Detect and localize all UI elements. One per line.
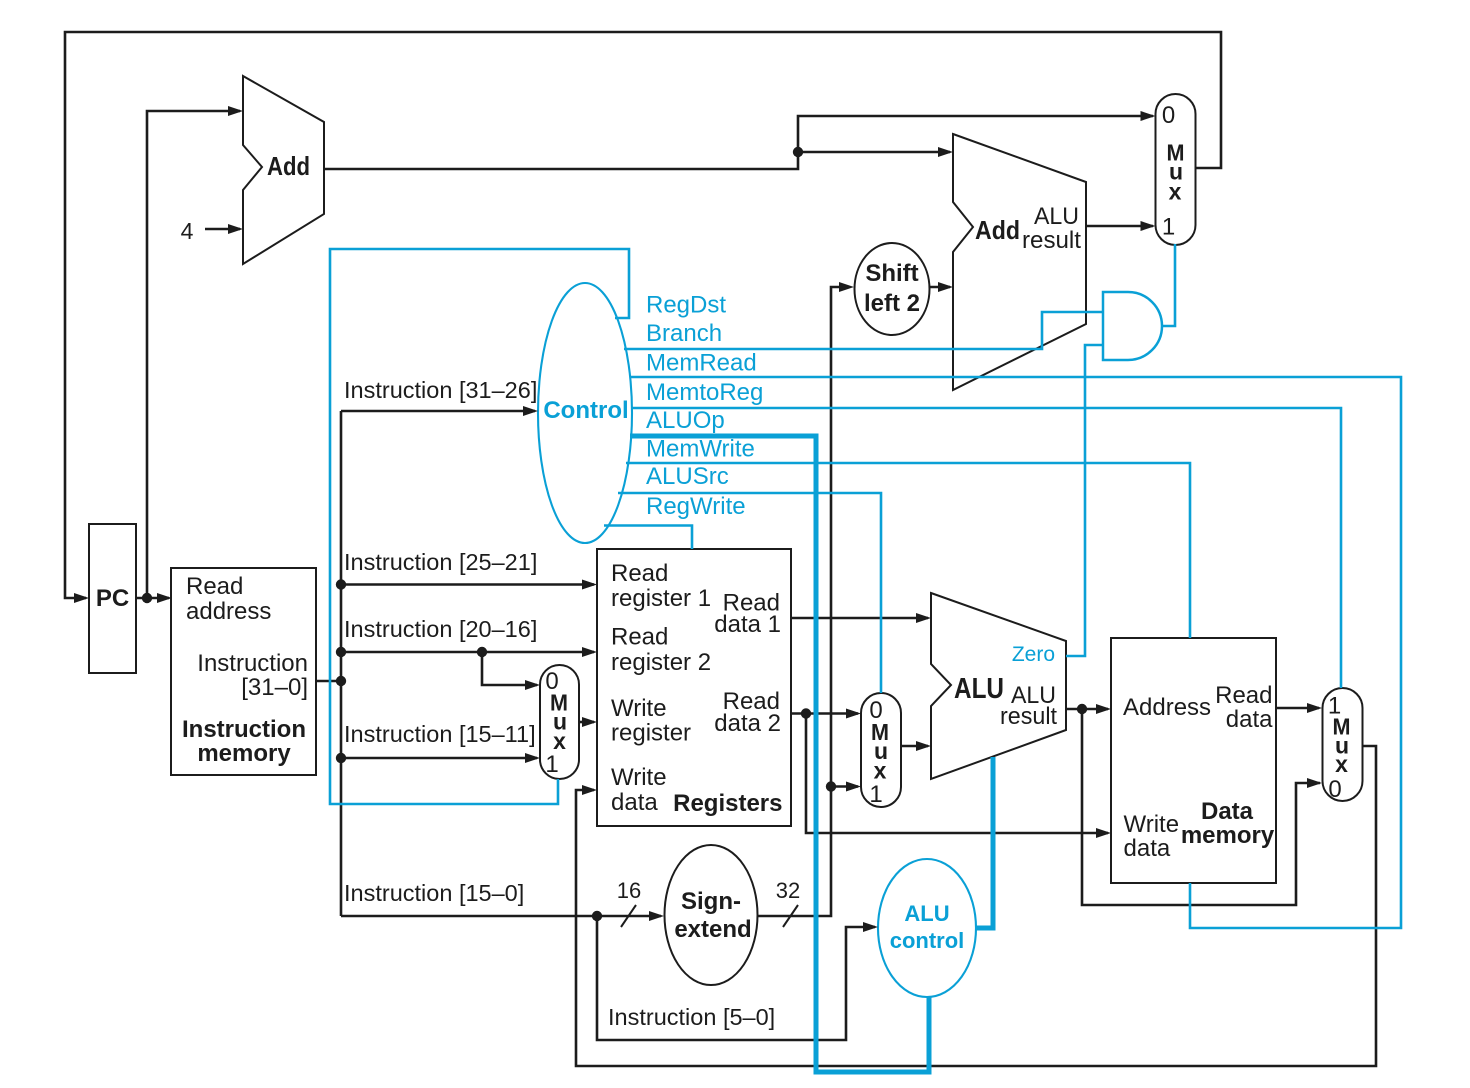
svg-text:1: 1	[1162, 214, 1175, 241]
svg-text:ALU: ALU	[1034, 203, 1079, 230]
svg-text:MemtoReg: MemtoReg	[646, 379, 763, 406]
svg-text:Read: Read	[186, 573, 243, 600]
svg-text:ALU: ALU	[954, 673, 1004, 705]
svg-text:Instruction [5–0]: Instruction [5–0]	[608, 1004, 775, 1030]
svg-text:memory: memory	[1181, 822, 1275, 849]
svg-text:x: x	[1335, 751, 1348, 777]
svg-text:x: x	[1169, 179, 1182, 205]
svg-text:Add: Add	[975, 215, 1020, 245]
svg-text:Address: Address	[1123, 694, 1211, 721]
svg-text:x: x	[874, 758, 887, 784]
svg-text:MemWrite: MemWrite	[646, 436, 755, 463]
svg-text:ALUOp: ALUOp	[646, 407, 725, 434]
svg-text:data: data	[1226, 706, 1273, 733]
svg-text:Read: Read	[611, 624, 668, 651]
svg-text:0: 0	[1328, 776, 1341, 803]
svg-text:Shift: Shift	[865, 260, 918, 287]
svg-text:PC: PC	[96, 585, 129, 612]
svg-text:register: register	[611, 720, 691, 747]
svg-text:Sign-: Sign-	[681, 888, 741, 915]
svg-text:Instruction [25–21]: Instruction [25–21]	[344, 549, 537, 575]
svg-text:result: result	[1000, 703, 1057, 730]
svg-text:Instruction [15–11]: Instruction [15–11]	[344, 721, 536, 747]
svg-text:left 2: left 2	[864, 290, 920, 317]
svg-text:Zero: Zero	[1012, 643, 1055, 666]
svg-text:register 2: register 2	[611, 649, 711, 676]
svg-text:memory: memory	[197, 740, 291, 767]
svg-text:data 1: data 1	[714, 611, 781, 638]
svg-text:ALU: ALU	[904, 901, 949, 926]
svg-text:data: data	[611, 789, 658, 816]
svg-text:result: result	[1022, 227, 1081, 254]
svg-text:Read: Read	[1215, 682, 1272, 709]
svg-text:MemRead: MemRead	[646, 350, 757, 377]
svg-text:Instruction: Instruction	[182, 716, 306, 743]
svg-text:data 2: data 2	[714, 710, 781, 737]
svg-text:RegWrite: RegWrite	[646, 493, 746, 520]
svg-text:RegDst: RegDst	[646, 292, 726, 319]
svg-text:[31–0]: [31–0]	[241, 674, 308, 701]
svg-text:Branch: Branch	[646, 320, 722, 347]
svg-text:Instruction [15–0]: Instruction [15–0]	[344, 880, 524, 906]
svg-text:data: data	[1124, 835, 1171, 862]
svg-text:Read: Read	[611, 560, 668, 587]
svg-text:0: 0	[1162, 102, 1175, 129]
svg-text:Instruction [31–26]: Instruction [31–26]	[344, 377, 537, 403]
svg-text:32: 32	[776, 878, 800, 903]
svg-text:1: 1	[545, 751, 558, 778]
svg-text:Write: Write	[611, 764, 667, 791]
svg-text:Registers: Registers	[673, 790, 782, 817]
svg-text:1: 1	[869, 781, 882, 808]
svg-text:4: 4	[181, 218, 194, 244]
svg-text:ALUSrc: ALUSrc	[646, 463, 729, 490]
svg-text:control: control	[890, 928, 965, 953]
svg-text:register 1: register 1	[611, 585, 711, 612]
svg-text:Instruction: Instruction	[197, 650, 308, 677]
svg-text:16: 16	[617, 878, 641, 903]
svg-text:Write: Write	[1124, 811, 1180, 838]
svg-text:Write: Write	[611, 695, 667, 722]
svg-text:extend: extend	[674, 916, 751, 943]
svg-text:address: address	[186, 598, 271, 625]
svg-text:Add: Add	[267, 151, 310, 181]
svg-text:Instruction [20–16]: Instruction [20–16]	[344, 616, 537, 642]
svg-text:Data: Data	[1201, 798, 1254, 825]
svg-text:Control: Control	[543, 397, 628, 424]
